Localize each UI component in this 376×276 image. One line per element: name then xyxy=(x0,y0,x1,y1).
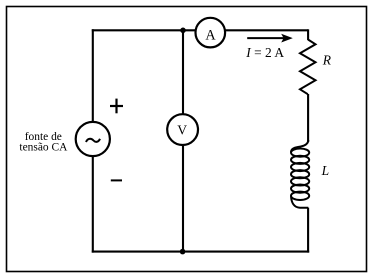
ammeter A xyxy=(196,18,226,48)
wire: inductor bottom to bottom-right corner xyxy=(307,208,309,253)
svg-text:V: V xyxy=(177,123,187,138)
wire: bottom horizontal xyxy=(92,251,309,253)
wire: resistor bottom to inductor top xyxy=(307,94,309,142)
label + (polarity) xyxy=(110,99,123,114)
AC source xyxy=(76,122,110,156)
svg-text:I = 2 A: I = 2 A xyxy=(245,45,284,60)
wire: right vertical (corner to resistor top) xyxy=(307,29,309,40)
svg-text:tensão CA: tensão CA xyxy=(19,141,68,153)
svg-text:L: L xyxy=(321,163,330,178)
current arrow xyxy=(247,34,293,43)
resistor R xyxy=(300,40,316,95)
wire: left vertical branch xyxy=(92,29,94,252)
svg-text:R: R xyxy=(322,53,332,68)
inductor L xyxy=(291,140,309,208)
svg-text:A: A xyxy=(205,28,216,44)
voltmeter V xyxy=(167,114,198,145)
node: bottom junction of voltmeter branch xyxy=(180,249,186,255)
wire: top horizontal (left corner to resistor corner) xyxy=(92,29,308,31)
node: top junction of voltmeter branch xyxy=(180,28,186,34)
label - (polarity) xyxy=(111,179,122,181)
wire: middle (voltmeter) branch xyxy=(182,30,184,251)
